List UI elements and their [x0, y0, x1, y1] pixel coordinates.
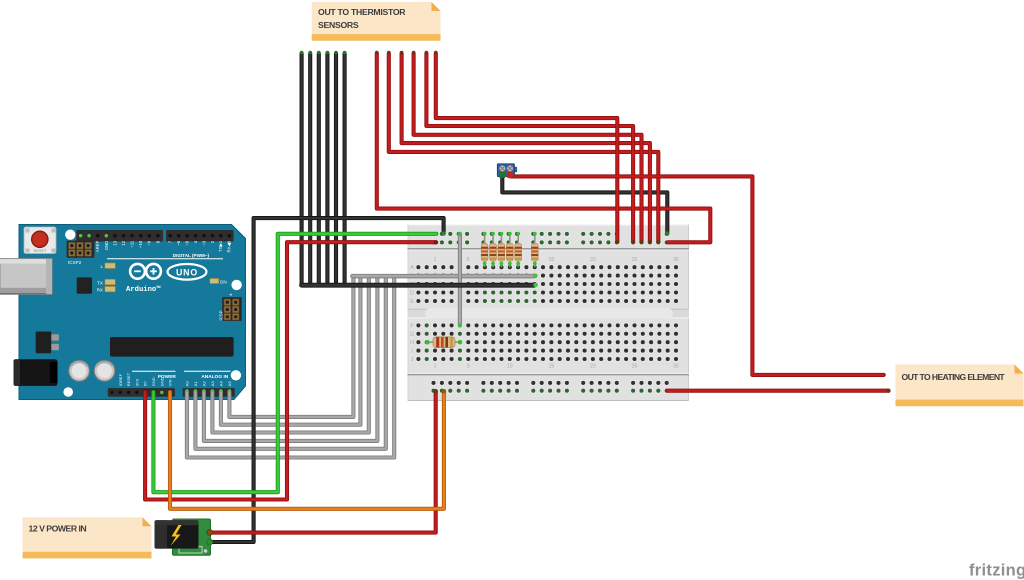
- svg-text:VIN: VIN: [168, 379, 173, 386]
- svg-text:25: 25: [632, 364, 638, 370]
- svg-text:F: F: [410, 323, 413, 329]
- svg-text:ANALOG IN: ANALOG IN: [201, 374, 228, 380]
- svg-text:GND: GND: [151, 377, 156, 386]
- svg-text:E: E: [410, 299, 414, 305]
- svg-text:12 V POWER IN: 12 V POWER IN: [29, 524, 87, 534]
- svg-text:SENSORS: SENSORS: [318, 20, 359, 30]
- svg-text:3V3: 3V3: [134, 378, 139, 386]
- svg-text:RX◀0: RX◀0: [227, 240, 232, 252]
- svg-text:15: 15: [549, 364, 555, 370]
- svg-text:~6: ~6: [176, 240, 181, 246]
- svg-text:GND: GND: [104, 241, 109, 251]
- svg-text:~3: ~3: [201, 240, 206, 246]
- svg-text:RESET: RESET: [34, 249, 47, 253]
- svg-text:25: 25: [632, 257, 638, 263]
- svg-text:OUT TO HEATING ELEMENT: OUT TO HEATING ELEMENT: [902, 372, 1006, 382]
- svg-text:GND: GND: [159, 377, 164, 386]
- svg-text:5: 5: [467, 257, 470, 263]
- svg-text:I: I: [411, 349, 412, 355]
- svg-text:1: 1: [434, 364, 437, 370]
- svg-text:30: 30: [673, 257, 679, 263]
- svg-text:20: 20: [590, 364, 596, 370]
- svg-text:DIGITAL (PWM~): DIGITAL (PWM~): [173, 253, 210, 258]
- svg-text:~11: ~11: [130, 240, 135, 248]
- svg-text:fritzing: fritzing: [969, 562, 1024, 580]
- svg-text:ICSP: ICSP: [219, 310, 224, 320]
- svg-text:A2: A2: [202, 381, 207, 387]
- svg-text:30: 30: [673, 364, 679, 370]
- svg-text:J: J: [411, 357, 414, 363]
- svg-text:~5: ~5: [184, 240, 189, 246]
- svg-text:A4: A4: [219, 381, 224, 387]
- svg-text:OUT TO THERMISTOR: OUT TO THERMISTOR: [318, 7, 406, 17]
- svg-text:TX▶1: TX▶1: [218, 240, 223, 252]
- svg-text:5: 5: [467, 364, 470, 370]
- svg-text:10: 10: [507, 364, 513, 370]
- svg-text:15: 15: [549, 257, 555, 263]
- svg-text:ICSP2: ICSP2: [68, 260, 82, 265]
- svg-text:12: 12: [121, 240, 126, 245]
- svg-text:1: 1: [434, 257, 437, 263]
- svg-text:5V: 5V: [143, 381, 148, 386]
- svg-text:UNO: UNO: [176, 267, 198, 277]
- svg-text:20: 20: [590, 257, 596, 263]
- svg-text:RX: RX: [97, 287, 103, 292]
- svg-text:TX: TX: [97, 280, 103, 285]
- svg-text:ON: ON: [220, 279, 227, 284]
- svg-text:A5: A5: [227, 381, 232, 387]
- svg-text:D: D: [410, 291, 414, 297]
- svg-text:AREF: AREF: [95, 240, 100, 252]
- svg-text:A1: A1: [193, 381, 198, 387]
- svg-text:▲: ▲: [229, 293, 233, 297]
- svg-text:A3: A3: [210, 381, 215, 387]
- svg-text:H: H: [410, 340, 414, 346]
- svg-text:IOREF: IOREF: [118, 373, 123, 386]
- svg-text:~10: ~10: [138, 240, 143, 248]
- svg-text:A0: A0: [185, 381, 190, 387]
- svg-text:13: 13: [112, 240, 117, 245]
- svg-text:L: L: [100, 264, 103, 269]
- svg-text:RESET: RESET: [126, 372, 131, 386]
- svg-text:A: A: [410, 265, 414, 271]
- svg-text:~9: ~9: [147, 240, 152, 246]
- svg-text:G: G: [410, 332, 414, 338]
- svg-text:Arduino™: Arduino™: [126, 285, 161, 294]
